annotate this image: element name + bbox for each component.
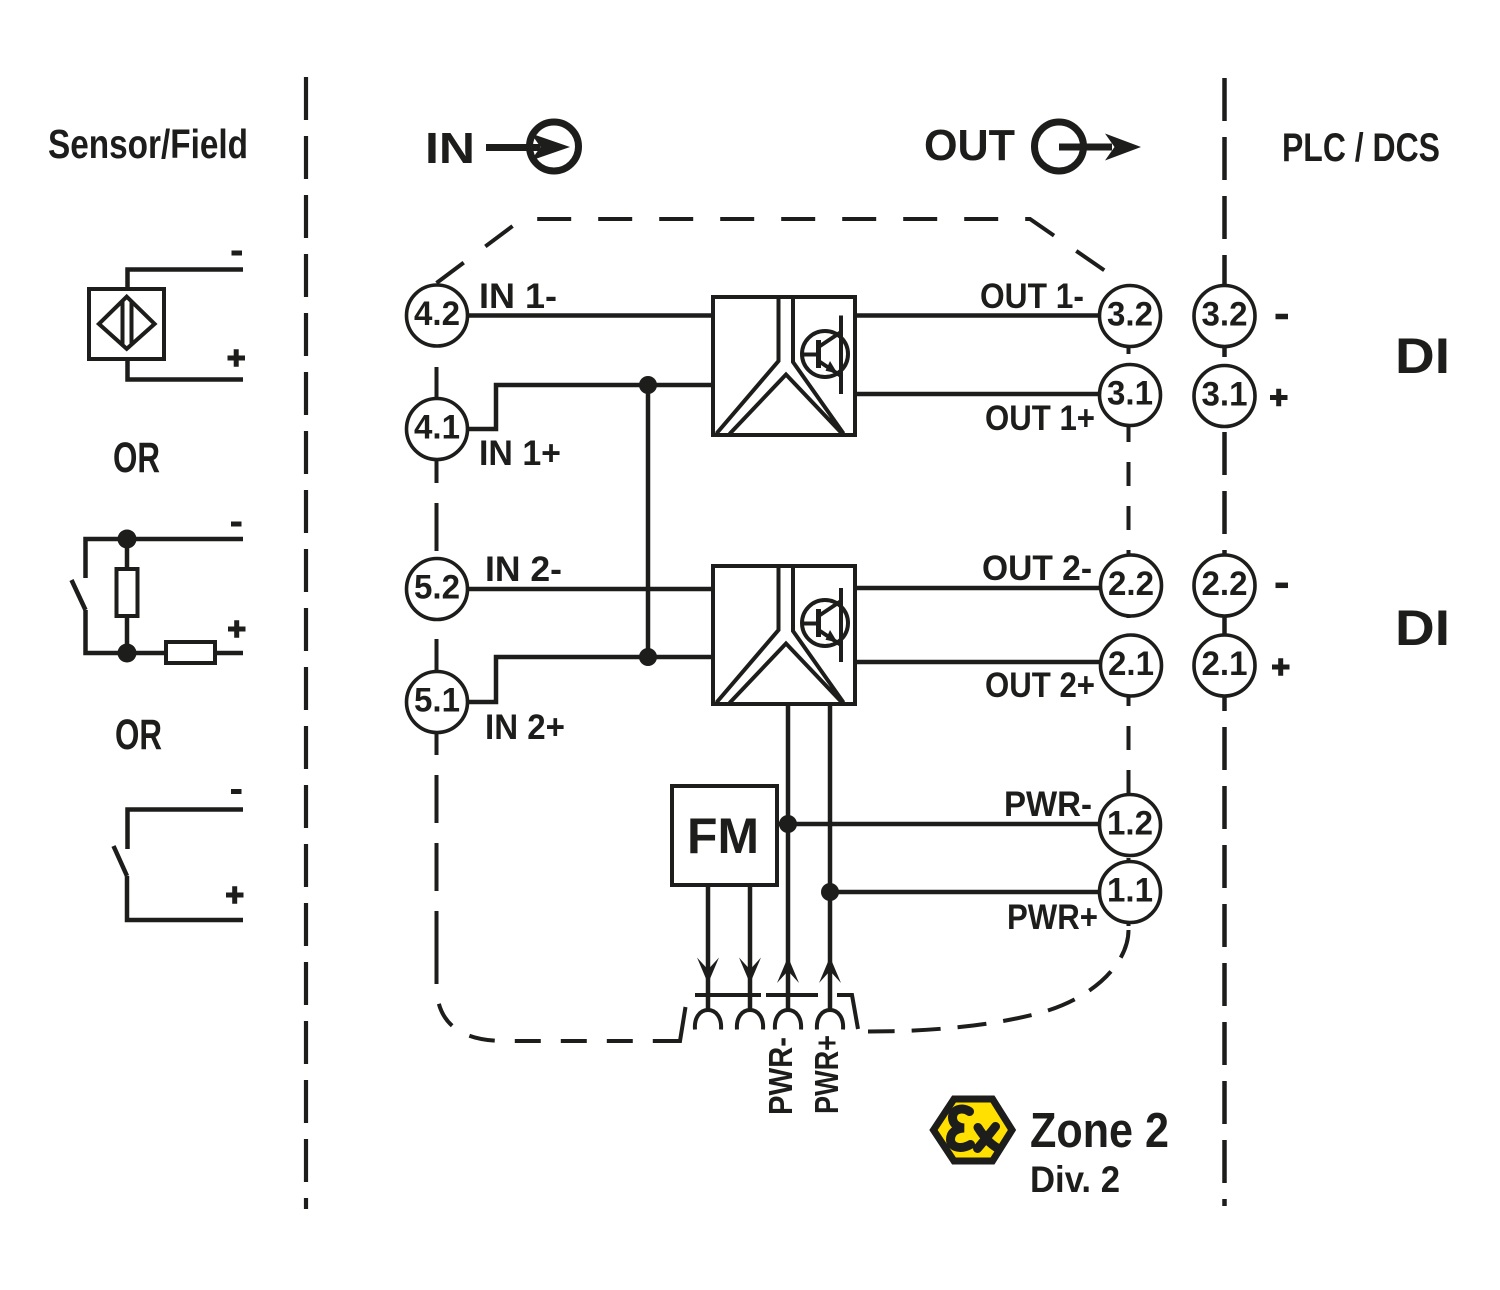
node: junction dot channel 2 [639, 648, 657, 666]
terminal 3.1 [1100, 365, 1161, 426]
svg-text:2.1: 2.1 [1202, 645, 1248, 683]
wire PWR+ to terminal 1.1 [830, 890, 1101, 895]
wire OUT 2- [841, 586, 1100, 591]
svg-text:OUT 2-: OUT 2- [982, 549, 1092, 588]
PLC terminal 3.2 [1194, 286, 1255, 347]
plus polarity label (sensor 2) [228, 620, 246, 638]
plus polarity label (sensor 1) [228, 349, 246, 367]
node: junction dot channel 1 [639, 376, 657, 394]
svg-text:IN 1+: IN 1+ [479, 434, 561, 473]
device boundary: bottom-right curve dashed [868, 930, 1129, 1032]
switch+resistor sensor: minus wire [86, 539, 244, 578]
output rail channel 2 [839, 588, 843, 662]
wire OUT 1+ [841, 392, 1100, 397]
wire IN 2+ [466, 657, 715, 702]
svg-text:OUT: OUT [924, 122, 1015, 170]
plug socket 2 [737, 1010, 763, 1030]
svg-text:Zone 2: Zone 2 [1030, 1103, 1169, 1158]
svg-text:3.2: 3.2 [1107, 296, 1153, 334]
terminal 2.2 [1101, 555, 1162, 616]
dry contact switch: plus wire [127, 876, 243, 920]
switch+resistor sensor: switch blade [72, 580, 86, 610]
svg-text:1.2: 1.2 [1107, 805, 1153, 843]
plug socket 3 [775, 1010, 801, 1030]
node: top junction dot [118, 530, 137, 549]
output rail channel 1 [839, 316, 843, 395]
plus polarity label (PLC DI 1) [1270, 389, 1288, 407]
terminal 4.1 [407, 399, 468, 460]
IN arrow icon [486, 122, 579, 171]
svg-text:OR: OR [113, 435, 160, 482]
PWR- line from isolator 2 with up arrow [777, 704, 799, 1011]
svg-text:3.2: 3.2 [1202, 296, 1248, 334]
minus polarity label (PLC DI 2) [1276, 583, 1289, 589]
resistor R series (horizontal) body [166, 642, 215, 663]
svg-text:OUT 1+: OUT 1+ [985, 399, 1095, 438]
terminal bar (plug header) left [695, 993, 761, 997]
terminal 4.2 [407, 285, 468, 346]
device boundary: left edge dashed [435, 281, 439, 958]
terminal bar (plug header) right [766, 993, 818, 997]
terminal 2.1 [1101, 635, 1162, 696]
svg-text:1.1: 1.1 [1107, 872, 1153, 910]
wire IN 1+ [466, 385, 715, 429]
terminal 3.2 [1100, 286, 1161, 347]
minus polarity label (sensor 1) [232, 251, 243, 256]
PLC terminal 2.1 [1194, 635, 1255, 696]
svg-text:DI: DI [1395, 599, 1450, 656]
terminal 1.1 [1100, 862, 1161, 923]
wire PWR- to terminal 1.2 [777, 822, 1101, 827]
svg-text:PLC / DCS: PLC / DCS [1282, 126, 1440, 170]
wire: IN+ bus vertical [646, 385, 651, 657]
proximity sensor plus wire [128, 359, 244, 380]
svg-text:OUT 1-: OUT 1- [980, 277, 1084, 316]
svg-text:3.1: 3.1 [1202, 376, 1248, 414]
PLC terminal 3.1 [1194, 366, 1255, 427]
proximity sensor body (square) [89, 289, 164, 359]
minus polarity label (PLC DI 1) [1276, 314, 1289, 320]
device boundary: right edge dashed [1127, 286, 1131, 930]
dashed separator line: sensor/field zone [304, 77, 308, 1209]
svg-text:IN 2+: IN 2+ [485, 708, 565, 747]
resistor R parallel (vertical) leads [125, 548, 130, 644]
plug bracket right [837, 995, 858, 1029]
FM supply line 1 with down arrow [697, 885, 719, 1011]
plug socket 4 [817, 1010, 843, 1030]
switch+resistor sensor: plus wire right segment [215, 651, 243, 656]
svg-text:Div. 2: Div. 2 [1030, 1158, 1120, 1200]
svg-text:2.2: 2.2 [1108, 565, 1154, 603]
svg-text:PWR+: PWR+ [1007, 898, 1098, 937]
proximity sensor diamond symbol [99, 297, 155, 349]
node: PWR+ junction dot [821, 883, 839, 901]
svg-text:4.1: 4.1 [414, 409, 460, 447]
plug socket 1 [695, 1010, 721, 1030]
terminal 5.1 [407, 672, 468, 733]
FM function monitoring box [672, 786, 777, 885]
Ex ATEX hexagon logo [934, 1099, 1013, 1161]
svg-text:2.1: 2.1 [1108, 645, 1154, 683]
svg-text:3.1: 3.1 [1107, 375, 1153, 413]
svg-text:4.2: 4.2 [414, 295, 460, 333]
OUT arrow icon [1035, 122, 1142, 171]
wire IN 2- [466, 587, 715, 592]
device boundary: top edge with chamfered corners dashed [437, 219, 1129, 287]
PLC terminal 2.2 [1194, 555, 1255, 616]
minus polarity label (sensor 2) [231, 522, 242, 527]
node: bottom junction dot [118, 644, 137, 663]
wire OUT 2+ [841, 660, 1100, 665]
wire OUT 1- [841, 313, 1100, 318]
minus polarity label (sensor 3) [231, 789, 242, 794]
isolator channel 1 box [713, 297, 855, 435]
switch+resistor sensor: plus wire left segment [86, 610, 167, 653]
svg-text:DI: DI [1395, 327, 1450, 384]
svg-text:IN: IN [425, 125, 475, 173]
svg-text:IN 1-: IN 1- [479, 277, 557, 316]
PWR+ line from isolator 2 with up arrow [819, 704, 841, 1011]
plug bracket left [663, 1007, 686, 1041]
plus polarity label (sensor 3) [226, 886, 244, 904]
svg-text:PWR-: PWR- [1004, 785, 1092, 824]
device boundary: bottom-left corner dashed [437, 958, 665, 1041]
svg-text:5.2: 5.2 [414, 569, 460, 607]
isolator channel 2 box [713, 566, 855, 704]
transistor Q2 [802, 600, 848, 646]
terminal 1.2 [1100, 795, 1161, 856]
svg-text:PWR+: PWR+ [808, 1035, 845, 1114]
plus polarity label (PLC DI 2) [1272, 658, 1290, 676]
proximity sensor minus wire [128, 270, 244, 290]
svg-text:OR: OR [115, 712, 162, 759]
svg-text:5.1: 5.1 [414, 682, 460, 720]
svg-text:FM: FM [687, 808, 759, 864]
svg-text:OUT 2+: OUT 2+ [985, 666, 1095, 705]
terminal 5.2 [407, 559, 468, 620]
node: PWR- junction dot [779, 815, 797, 833]
FM supply line 2 with down arrow [739, 885, 761, 1011]
svg-text:Sensor/Field: Sensor/Field [48, 121, 248, 167]
isolator channel 2 Y symbol [717, 566, 844, 703]
transistor Q1 [802, 331, 848, 377]
dry contact switch: blade [114, 846, 128, 876]
dry contact switch: minus wire [128, 810, 244, 850]
resistor R parallel (vertical) body [117, 569, 138, 616]
svg-text:IN 2-: IN 2- [485, 550, 562, 589]
svg-text:PWR-: PWR- [762, 1037, 799, 1115]
isolator channel 1 Y symbol [717, 297, 844, 434]
wire IN 1- [466, 313, 715, 318]
dashed separator line: PLC/DCS zone [1222, 78, 1227, 1206]
svg-text:2.2: 2.2 [1202, 565, 1248, 603]
